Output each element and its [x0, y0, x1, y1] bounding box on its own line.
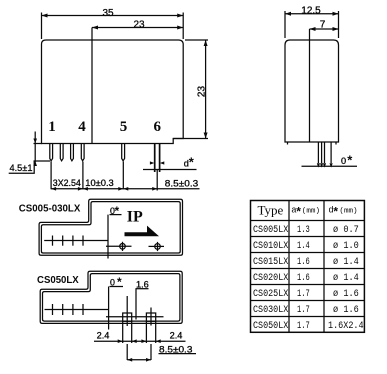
svg-text:4.5±1: 4.5±1 [10, 163, 33, 173]
svg-text:1.6: 1.6 [136, 279, 149, 289]
dimension 4.5±1 arrows [33, 139, 37, 167]
dimension 12.5 extensions [285, 11, 339, 38]
footprint 2 pad 2 [146, 313, 155, 321]
dimension 35 arrows [42, 14, 184, 18]
footprint 1 0* leader [107, 215, 109, 259]
svg-text:7: 7 [320, 20, 326, 31]
footprint 2 pin cross 4 [82, 304, 84, 315]
svg-text:*: * [189, 155, 195, 170]
svg-text:3X2.54: 3X2.54 [53, 178, 81, 188]
pin 3 [71, 144, 74, 161]
dimension 23 top arrows [92, 26, 183, 30]
svg-text:CS005-030LX: CS005-030LX [19, 204, 81, 215]
table header bottom line [251, 220, 365, 222]
side view pin thick [325, 142, 332, 163]
side view seam [309, 29, 311, 142]
svg-text:1.7: 1.7 [297, 321, 310, 332]
dimension 35 left extension [41, 13, 43, 40]
table row line 3 [251, 268, 365, 270]
footprint 2 pad 1 center line [126, 296, 128, 326]
svg-text:*: * [347, 153, 353, 168]
footprint 2 8.5 arrows [127, 358, 151, 362]
side view baseline [302, 165, 358, 167]
svg-text:23: 23 [196, 86, 207, 98]
footprint 1 hole 1 vertical [122, 242, 124, 251]
footprint 2 1.6 underline [136, 288, 149, 290]
footprint 1 hole 2 arm [149, 245, 165, 247]
footprint 1 IP arrow [125, 226, 160, 237]
svg-text:CS020LX: CS020LX [253, 273, 288, 284]
svg-text:ø 1.4: ø 1.4 [333, 273, 359, 284]
svg-text:CS025LX: CS025LX [253, 289, 288, 300]
side view foot left [287, 142, 289, 145]
footprint 1 pin cross 1 [52, 236, 54, 246]
footprint 2 8.5 dimension line [127, 359, 151, 361]
svg-text:10±0.3: 10±0.3 [85, 178, 114, 188]
footprint 1 hole 1 circle [120, 244, 126, 250]
dimension 35 right extension [182, 13, 184, 40]
svg-text:1.3: 1.3 [297, 225, 310, 236]
bottom dimension line [51, 188, 199, 190]
table row CS005LX [253, 225, 364, 332]
svg-text:2.4: 2.4 [170, 331, 183, 341]
svg-text:CS030LX: CS030LX [253, 305, 288, 316]
svg-text:*: * [115, 204, 120, 218]
footprint 2 0* leader [108, 287, 110, 330]
side view pin thin [318, 142, 321, 163]
svg-text:*: * [333, 205, 338, 219]
footprint 2 pad edge extension a [122, 322, 124, 344]
dimension 4.5±1 lower extension [34, 160, 51, 162]
pin 4 [81, 144, 84, 161]
footprint 2 0* underline [110, 286, 124, 288]
footprint 2 8.5±0.3 underline [159, 353, 197, 355]
table row line 5 [251, 300, 365, 302]
svg-text:ø 1.6: ø 1.6 [333, 305, 359, 316]
svg-text:Type: Type [258, 203, 284, 218]
extension line pin4 [82, 162, 84, 190]
dimension 23 right line [205, 40, 207, 139]
svg-text:23: 23 [133, 19, 145, 30]
svg-text:1.6X2.4: 1.6X2.4 [328, 321, 364, 332]
dimension 4.5±1 line [34, 132, 36, 163]
svg-text:1.6: 1.6 [297, 273, 310, 284]
pin 5 [122, 144, 125, 161]
footprint 2 pin cross 3 [72, 304, 74, 315]
side view foot right [335, 142, 337, 145]
dimension 23 right bottom extension [173, 138, 208, 140]
footprint 2 outer outline [40, 271, 182, 323]
pin 1 [50, 144, 53, 161]
svg-text:(mm): (mm) [339, 208, 357, 216]
d* arrows on pin 6 [150, 161, 164, 164]
footprint 2 pin cross 2 [62, 304, 64, 315]
dimension 23 right top extension [185, 39, 208, 41]
svg-text:0: 0 [341, 156, 346, 166]
footprint 2 pad edge extension d [155, 322, 157, 344]
svg-text:CS050LX: CS050LX [253, 321, 288, 332]
table row line 4 [251, 284, 365, 286]
svg-text:4: 4 [78, 119, 86, 135]
footprint 1 pin row line [44, 240, 108, 242]
footprint 2 pad center extension a [126, 344, 128, 360]
svg-text:6: 6 [154, 119, 162, 135]
footprint 1 outer outline [39, 199, 182, 255]
footprint 2 pad 2 center line [150, 308, 152, 326]
dimension 35 line [42, 15, 184, 17]
svg-text:*: * [296, 205, 301, 219]
footprint 1 inner outline [41, 202, 180, 253]
footprint 1 pin cross 3 [72, 236, 74, 246]
dimension 4.5±1 upper extension [34, 143, 43, 145]
footprint 2 pad edge extension b [131, 322, 133, 344]
footprint 2 pad 1 [123, 313, 132, 321]
footprint 2 pad center extension b [150, 344, 152, 360]
footprint 1 hole 2 vertical [157, 242, 159, 251]
dimension 23 top line [92, 27, 183, 29]
table column line 1 [288, 201, 290, 333]
footprint 2 pin cross 1 [52, 304, 54, 315]
dimension 7 arrows [310, 27, 339, 31]
dimension 7 line [310, 28, 339, 30]
pin 2 [60, 144, 63, 161]
footprint 2 2.4 dimension line [94, 340, 186, 342]
svg-text:ø 1.4: ø 1.4 [333, 257, 359, 268]
svg-text:1.7: 1.7 [297, 305, 310, 316]
table row line 2 [251, 252, 365, 254]
svg-text:5: 5 [120, 119, 128, 135]
svg-text:CS005LX: CS005LX [253, 225, 288, 236]
front view body seam [91, 28, 93, 144]
pin 6 [155, 144, 160, 173]
svg-text:1: 1 [48, 119, 56, 135]
svg-text:ø 1.6: ø 1.6 [333, 289, 359, 300]
svg-text:CS010LX: CS010LX [253, 241, 288, 252]
table row line 1 [251, 236, 365, 238]
extension line pin6 [156, 170, 158, 191]
svg-text:12.5: 12.5 [301, 5, 321, 16]
d* leader line [143, 169, 197, 171]
footprint 2 pad edge extension c [145, 322, 147, 344]
footprint 2 1.6 leader [135, 289, 137, 320]
side view body [285, 40, 339, 142]
svg-text:CS015LX: CS015LX [253, 257, 288, 268]
footprint 1 pin cross 4 [82, 236, 84, 246]
svg-text:ø 1.0: ø 1.0 [333, 241, 359, 252]
svg-text:1.4: 1.4 [297, 241, 310, 252]
svg-text:1.6: 1.6 [297, 257, 310, 268]
footprint 1 hole 1 arm [106, 245, 132, 247]
table outer border [251, 201, 365, 333]
svg-text:CS050LX: CS050LX [37, 275, 79, 286]
side view a* arrows [317, 163, 333, 167]
footprint 1 hole 2 circle [155, 244, 161, 250]
front view body [42, 40, 184, 144]
svg-text:35: 35 [102, 8, 114, 19]
dimension 4.5±1 leader [9, 161, 35, 173]
extension line pin5 [122, 162, 124, 190]
svg-text:ø 0.7: ø 0.7 [333, 225, 359, 236]
bottom dimension arrows [51, 187, 157, 191]
svg-text:1.7: 1.7 [297, 289, 310, 300]
footprint 2 2.4 arrows [118, 339, 161, 343]
svg-text:2.4: 2.4 [97, 331, 110, 341]
svg-text:IP: IP [127, 208, 143, 225]
svg-text:(mm): (mm) [302, 208, 320, 216]
dimension 12.5 line [285, 13, 339, 15]
footprint 2 pin row line [45, 309, 109, 311]
table column line 2 [323, 201, 325, 333]
extension line pin1 [50, 162, 52, 190]
dimension 23 right arrows [204, 40, 208, 139]
footprint 2 inner outline [43, 274, 180, 322]
footprint 2 pad row line [106, 316, 164, 318]
dimension 12.5 arrows [285, 12, 339, 16]
footprint 1 0* underline [110, 214, 122, 216]
footprint 1 pin cross 2 [62, 236, 64, 246]
table row line 6 [251, 316, 365, 318]
svg-text:8.5±0.3: 8.5±0.3 [165, 178, 198, 188]
